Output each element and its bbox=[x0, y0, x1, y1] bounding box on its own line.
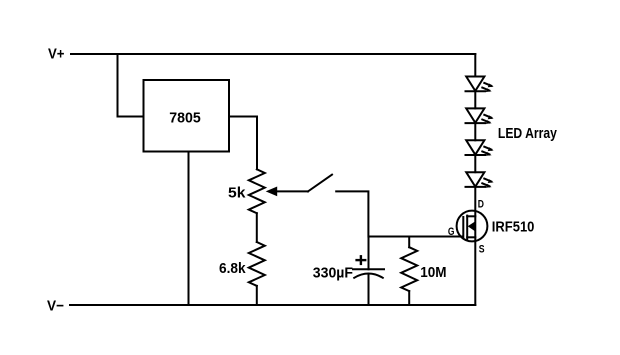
switch SW1 lever bbox=[308, 175, 332, 192]
wire between LED D1 and D2 bbox=[474, 91, 476, 108]
wire LED chain drop from top rail bbox=[474, 54, 476, 77]
wire switch contact to gate node bbox=[336, 191, 463, 236]
transistor Q1 IRF510 MOSFET bbox=[457, 211, 488, 242]
svg-text:S: S bbox=[479, 244, 485, 256]
capacitor C1 330uF top lead bbox=[368, 237, 370, 270]
svg-text:LED Array: LED Array bbox=[498, 125, 558, 142]
wire 6.8k to bottom rail bbox=[256, 286, 258, 305]
resistor R3 10M zigzag bbox=[401, 247, 417, 291]
svg-text:330µF: 330µF bbox=[313, 265, 353, 282]
LED D3 bbox=[466, 140, 494, 156]
capacitor C1 330uF plates bbox=[353, 269, 384, 278]
wire between LED D3 and D4 bbox=[474, 155, 476, 172]
svg-text:5k: 5k bbox=[228, 185, 246, 202]
LED D4 bbox=[466, 172, 494, 188]
LED D1 bbox=[466, 77, 494, 93]
wire regulator input drop bbox=[118, 54, 144, 117]
svg-text:7805: 7805 bbox=[169, 109, 201, 126]
potentiometer R1 5k zigzag bbox=[249, 169, 265, 213]
svg-text:IRF510: IRF510 bbox=[492, 219, 535, 236]
svg-text:V+: V+ bbox=[48, 45, 65, 62]
wire between LED D2 and D3 bbox=[474, 123, 476, 140]
regulator U1 7805 box bbox=[144, 80, 230, 152]
wire MOSFET drain-source vertical bbox=[474, 187, 476, 305]
wire capacitor bottom lead bbox=[368, 275, 370, 305]
resistor R2 6.8k zigzag bbox=[249, 242, 265, 286]
wire 10M to bottom rail bbox=[408, 291, 410, 305]
wire 7805 output to potentiometer bbox=[229, 117, 257, 170]
svg-text:G: G bbox=[448, 226, 455, 238]
svg-text:10M: 10M bbox=[420, 264, 446, 281]
LED D2 bbox=[466, 108, 494, 124]
wire bottom rail V- bbox=[70, 304, 475, 306]
resistor R3 10M top lead bbox=[408, 237, 410, 248]
svg-text:D: D bbox=[478, 199, 484, 211]
wire top rail V+ bbox=[71, 53, 475, 55]
potentiometer wiper arrow bbox=[266, 187, 308, 197]
svg-text:V−: V− bbox=[47, 298, 64, 315]
capacitor C1 plus sign bbox=[357, 256, 366, 264]
wire 7805 ground pin bbox=[188, 152, 190, 306]
svg-text:6.8k: 6.8k bbox=[219, 260, 246, 277]
wire pot to 6.8k resistor bbox=[256, 213, 258, 242]
